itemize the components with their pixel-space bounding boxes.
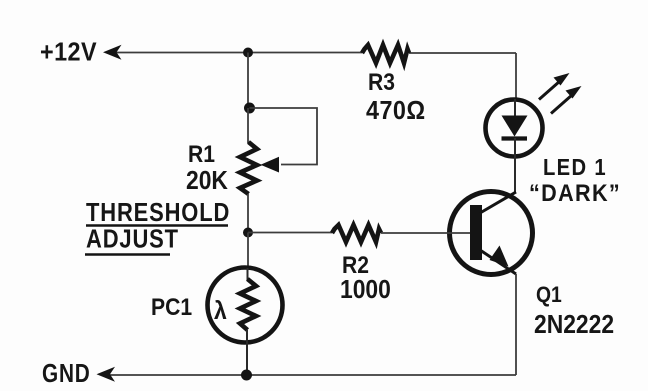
svg-text:R2: R2 (342, 252, 369, 279)
photocell PC1 bottom wire (246, 330, 248, 375)
svg-text:R1: R1 (188, 141, 215, 168)
transistor Q1 emitter arrowhead (490, 246, 509, 267)
wire: +12V top rail right segment (409, 52, 516, 54)
transistor Q1 collector line (480, 192, 516, 213)
wire: R2 to Q1 base (381, 232, 470, 234)
junction dot: ground node (241, 370, 252, 381)
photocell PC1 circle (208, 268, 283, 343)
junction dot: base node (243, 228, 253, 238)
resistor R3 (362, 45, 409, 63)
wire: base node to R2 (248, 232, 332, 234)
LED LED1 circle (486, 100, 543, 157)
resistor R2 (332, 225, 381, 242)
wire: pot wiper loop (250, 108, 318, 165)
LED LED1 cathode wire (514, 138, 516, 192)
wire: top rail corner down to LED (515, 53, 517, 99)
svg-text:λ: λ (214, 297, 227, 325)
arrowhead: pot wiper arrow (261, 157, 280, 173)
svg-text:LED 1: LED 1 (543, 154, 607, 181)
underline THRESHOLD (86, 224, 228, 226)
LED LED1 cathode bar (502, 136, 528, 140)
arrow: LED light arrow upper (539, 73, 570, 100)
svg-text:470Ω: 470Ω (366, 97, 426, 125)
svg-text:1000: 1000 (340, 276, 391, 305)
junction dot: top rail (243, 48, 253, 58)
wire: bus top to pot loop node (247, 53, 249, 109)
svg-text:PC1: PC1 (151, 294, 192, 321)
wire: emitter down to ground rail (515, 274, 517, 375)
svg-text:GND: GND (42, 359, 91, 388)
svg-text:R3: R3 (368, 69, 395, 96)
arrow: LED light arrow lower (551, 86, 582, 114)
svg-text:2N2222: 2N2222 (534, 311, 614, 340)
wire: R1 bottom to base node (247, 194, 249, 233)
svg-text:+12V: +12V (40, 38, 97, 66)
photocell PC1 top wire inside (247, 268, 249, 281)
arrowhead: GND left arrow (97, 367, 116, 382)
svg-text:ADJUST: ADJUST (86, 225, 179, 254)
svg-text:20K: 20K (186, 167, 228, 196)
LED LED1 triangle (502, 116, 528, 137)
svg-text:Q1: Q1 (536, 283, 562, 307)
wire: +12V top rail left segment (116, 52, 362, 54)
junction dot: pot loop node (244, 103, 255, 114)
photocell PC1 zigzag (240, 279, 256, 330)
svg-text:“DARK”: “DARK” (529, 179, 621, 206)
wire: ground rail (110, 374, 516, 376)
transistor Q1 circle (450, 192, 533, 275)
transistor Q1 base bar (470, 205, 482, 260)
wire: base node down to PC1 (247, 233, 249, 269)
arrowhead: +12V left arrow (103, 45, 122, 60)
LED LED1 anode wire inside (514, 99, 516, 118)
potentiometer R1 zigzag (240, 142, 257, 194)
wire: bus node to R1 top (247, 108, 249, 143)
underline ADJUST (85, 253, 170, 255)
svg-text:THRESHOLD: THRESHOLD (86, 198, 230, 227)
transistor Q1 emitter line (480, 250, 516, 274)
